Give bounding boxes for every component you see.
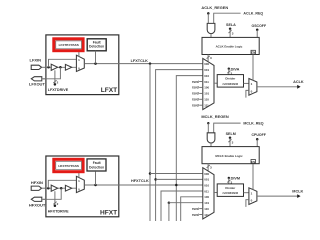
junction dot LFXTCLK to MCLK mux xyxy=(149,172,152,175)
junction dot LFXTDRIVE xyxy=(54,83,57,86)
svg-text:LFXT: LFXT xyxy=(101,87,117,94)
svg-text:rsvd: rsvd xyxy=(192,92,199,96)
buffer amp HFXT input stage xyxy=(51,185,57,191)
junction dot SELA xyxy=(229,27,232,30)
box Divider MCLK xyxy=(217,184,243,197)
wire fault detection tap LFXT xyxy=(95,51,97,64)
bus width slash 2 HFXTDRIVE xyxy=(53,202,56,205)
junction dot LFXT bypass tap xyxy=(47,66,50,69)
svg-text:ACLK Enable Logic: ACLK Enable Logic xyxy=(216,45,243,49)
wire MCLK input 100 rail xyxy=(181,197,203,221)
junction dot DIVM xyxy=(228,177,230,179)
junction dot HFXT fault tap xyxy=(94,184,97,187)
wire LFXTCLK xyxy=(84,63,203,65)
svg-text:3: 3 xyxy=(232,141,234,145)
bus width slash 2 LFXTDRIVE xyxy=(53,80,56,83)
svg-text:/1/2/4/8/16/32: /1/2/4/8/16/32 xyxy=(223,82,239,86)
svg-text:LFXTBYPASS: LFXTBYPASS xyxy=(59,43,79,47)
svg-text:010: 010 xyxy=(204,183,209,187)
svg-text:110: 110 xyxy=(204,207,209,211)
junction dot SELM xyxy=(229,137,232,140)
wire gate output to ACLK enable logic xyxy=(210,34,212,38)
junction dot HFXTCLK rail xyxy=(175,184,178,187)
wire rail LFXTCLK down xyxy=(149,64,151,221)
svg-text:100: 100 xyxy=(204,86,209,90)
junction dot HFXT bypass tap xyxy=(47,187,50,190)
svg-text:101: 101 xyxy=(204,201,209,205)
wire OSCOFF into enable logic xyxy=(256,30,258,38)
svg-text:Detection: Detection xyxy=(89,45,104,49)
svg-text:MCLK: MCLK xyxy=(292,189,303,193)
wire MCLK mux input 000 xyxy=(150,173,203,175)
bus width slash 3 DIVA xyxy=(227,71,230,74)
wire LFXOUT feedback xyxy=(43,67,60,79)
wire rail VLOCLK xyxy=(156,70,203,221)
junction dot CPUOFF xyxy=(256,138,259,141)
buffer amp LFXT input stage xyxy=(51,64,57,70)
svg-text:HFXTBYPASS: HFXTBYPASS xyxy=(58,164,79,168)
svg-text:110: 110 xyxy=(204,98,209,102)
svg-text:Divider: Divider xyxy=(225,186,236,190)
svg-text:ACLK: ACLK xyxy=(293,80,304,84)
svg-text:LFXTDRIVE: LFXTDRIVE xyxy=(48,88,69,92)
wire SELM into enable logic xyxy=(229,138,231,147)
bus width slash 3 ACLK select xyxy=(207,56,210,59)
box Fault Detection LFXT xyxy=(87,39,106,51)
svg-text:HFXTDRIVE: HFXTDRIVE xyxy=(48,210,69,214)
block HFXT xyxy=(46,156,119,217)
wire DIVA into divider xyxy=(228,69,230,75)
pad LFXOUT xyxy=(31,77,42,81)
pad HFXOUT xyxy=(31,197,42,201)
svg-text:MCLK_REGEN: MCLK_REGEN xyxy=(201,114,228,119)
svg-text:111: 111 xyxy=(204,104,209,108)
svg-text:rsvd: rsvd xyxy=(192,207,199,211)
mux MCLK source select xyxy=(203,168,214,219)
wire ACLK mux zero stub xyxy=(246,90,249,97)
wire ACLK_REQ xyxy=(214,13,241,23)
svg-text:010: 010 xyxy=(204,74,209,78)
svg-text:rsvd: rsvd xyxy=(192,98,199,102)
svg-text:HFXIN: HFXIN xyxy=(31,180,43,185)
svg-text:HFXTCLK: HFXTCLK xyxy=(131,179,149,183)
buffer amp HFXT output stage xyxy=(65,185,71,191)
wire HFXTBYPASS select xyxy=(78,173,80,178)
arrowhead ACLK xyxy=(297,85,300,89)
bus width slash 3 DIVM xyxy=(227,180,230,183)
arrowhead MCLK xyxy=(297,194,300,198)
wire MCLK output xyxy=(257,195,298,197)
junction dot LFXT fault tap xyxy=(94,62,97,65)
svg-text:LFXIN: LFXIN xyxy=(30,58,42,63)
svg-text:3: 3 xyxy=(210,56,212,60)
wire HFXOUT feedback xyxy=(43,188,61,199)
svg-text:ACLK_REGEN: ACLK_REGEN xyxy=(201,5,228,10)
wire MCLK_REGEN into gate xyxy=(207,123,209,133)
svg-text:EN: EN xyxy=(251,160,255,164)
svg-text:ACLK_REQ: ACLK_REQ xyxy=(243,11,263,15)
svg-text:LFXOUT: LFXOUT xyxy=(29,81,46,86)
svg-text:rsvd: rsvd xyxy=(192,213,199,217)
mux HFXT bypass select xyxy=(76,176,84,192)
svg-text:SELA: SELA xyxy=(226,23,236,27)
svg-text:3: 3 xyxy=(210,165,212,169)
svg-text:Divider: Divider xyxy=(225,77,236,81)
svg-text:011: 011 xyxy=(204,80,209,84)
wire MCLK mux to divider xyxy=(214,192,217,194)
junction dot OSCOFF xyxy=(256,29,259,32)
box ACLK Enable Logic xyxy=(202,37,259,54)
wire MCLK mux zero stub xyxy=(246,200,249,207)
wire DIVM into divider xyxy=(228,178,230,184)
wire rail HFXTCLK up to ACLK mux input 010 xyxy=(176,76,203,221)
wire CPUOFF into enable logic xyxy=(256,139,258,146)
wire ACLK_REGEN into gate xyxy=(207,13,209,23)
bus width slash 3 MCLK select xyxy=(207,165,210,168)
wire EN to ACLK output mux xyxy=(252,55,254,81)
mux LFXT bypass select xyxy=(76,55,84,71)
wire HFXT bypass path xyxy=(48,180,76,188)
svg-text:LFXTCLK: LFXTCLK xyxy=(131,59,149,63)
svg-text:rsvd: rsvd xyxy=(192,80,199,84)
wire MCLK mux input 001 xyxy=(156,178,203,180)
and gate ACLK request xyxy=(207,23,215,33)
box Divider ACLK xyxy=(217,75,243,88)
wire DCOCLK rail MCLK input 011 xyxy=(161,191,203,221)
junction dot MODCLK rail xyxy=(168,201,171,204)
wire SELM select to MCLK mux xyxy=(207,164,209,171)
box EN ACLK xyxy=(251,50,255,54)
wire LFXT bypass path xyxy=(49,59,77,67)
wire ACLK mux to divider xyxy=(214,82,217,84)
svg-text:HFXOUT: HFXOUT xyxy=(29,203,46,208)
buffer amp LFXT output stage xyxy=(65,64,71,70)
box Fault Detection HFXT xyxy=(87,159,106,171)
mux ACLK source select xyxy=(203,58,214,109)
and gate MCLK request xyxy=(207,133,215,143)
box EN MCLK xyxy=(251,160,255,164)
wire divider to MCLK output mux xyxy=(244,192,249,194)
svg-text:CPUOFF: CPUOFF xyxy=(252,133,267,137)
svg-text:rsvd: rsvd xyxy=(192,86,199,90)
pad HFXIN xyxy=(31,186,41,190)
svg-text:111: 111 xyxy=(204,213,209,217)
svg-text:Detection: Detection xyxy=(89,166,104,170)
wire LFXIN input xyxy=(45,66,77,68)
junction dot MCLK_REGEN xyxy=(207,122,209,124)
svg-text:OSCOFF: OSCOFF xyxy=(252,24,267,28)
wire ACLK output xyxy=(257,86,298,88)
svg-text:001: 001 xyxy=(204,68,209,72)
wire fault detection tap HFXT xyxy=(95,172,97,185)
wire SELA into enable logic xyxy=(229,29,231,38)
svg-text:011: 011 xyxy=(204,189,209,193)
junction dot LFXTCLK rail xyxy=(149,62,152,65)
junction dot HFXT feedback node xyxy=(60,187,63,190)
svg-text:001: 001 xyxy=(204,178,209,182)
wire HFXTCLK xyxy=(84,184,203,186)
block LFXT xyxy=(46,35,119,95)
reg box LFXTBYPASS red highlight xyxy=(54,39,83,51)
junction dot LFXT feedback node xyxy=(59,66,62,69)
reg box HFXTBYPASS red highlight xyxy=(54,159,83,171)
junction dot ACLK_REGEN xyxy=(207,12,210,15)
box MCLK Enable Logic xyxy=(202,147,259,164)
wire LFXTBYPASS select xyxy=(78,52,80,57)
wire HFXIN input xyxy=(45,187,77,189)
mux MCLK output enable xyxy=(249,188,257,205)
wire HFXTDRIVE stub xyxy=(54,191,56,206)
wire EN to MCLK output mux xyxy=(252,164,254,190)
svg-text:000: 000 xyxy=(204,172,209,176)
svg-text:HFXT: HFXT xyxy=(100,210,117,217)
pad LFXIN xyxy=(31,65,41,69)
svg-text:EN: EN xyxy=(251,51,255,55)
wire MODCLK rail MCLK input 101 xyxy=(169,203,203,221)
svg-text:rsvd: rsvd xyxy=(192,104,199,108)
svg-text:101: 101 xyxy=(204,92,209,96)
wire SELA select to ACLK mux xyxy=(207,55,209,62)
junction dot VLOCLK to MCLK mux xyxy=(154,178,157,181)
svg-text:MCLK_REQ: MCLK_REQ xyxy=(243,121,263,125)
wire gate output to MCLK enable logic xyxy=(210,143,212,147)
wire divider to ACLK output mux xyxy=(244,82,249,84)
svg-text:/1/2/4/8/16/32: /1/2/4/8/16/32 xyxy=(223,191,239,195)
bus width slash 3 SELM xyxy=(228,139,231,142)
wire LFXTDRIVE stub xyxy=(54,70,56,84)
svg-text:SELM: SELM xyxy=(226,132,236,136)
svg-text:3: 3 xyxy=(232,31,234,35)
junction dot HFXTDRIVE xyxy=(54,205,57,208)
bus width slash 3 SELA xyxy=(229,30,232,33)
svg-text:100: 100 xyxy=(204,195,209,199)
mux ACLK output enable xyxy=(249,79,257,96)
svg-text:MCLK Enable Logic: MCLK Enable Logic xyxy=(215,154,243,158)
wire MCLK_REQ xyxy=(214,123,241,133)
svg-text:000: 000 xyxy=(204,62,209,66)
junction dot DIVA xyxy=(228,68,230,70)
